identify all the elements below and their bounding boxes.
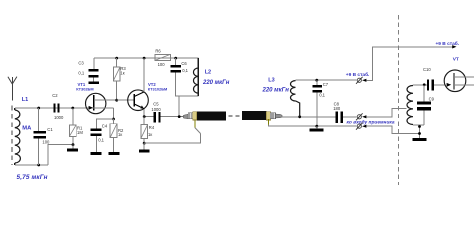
ground (R1) xyxy=(72,145,74,149)
node: emitter/R4/C5 xyxy=(143,115,146,118)
node: rail/VT2 collector xyxy=(143,57,146,60)
resistor R2 xyxy=(113,119,115,124)
wire: VT2 emitter row to C5 xyxy=(144,116,154,118)
svg-text:1М: 1М xyxy=(77,130,83,135)
wire: L1 bottom rail xyxy=(15,164,48,166)
transistor VT2 xyxy=(128,90,149,111)
svg-text:C5: C5 xyxy=(153,102,159,107)
connector pin: to receiver input xyxy=(357,115,361,119)
node: ground junction 2 xyxy=(418,132,421,135)
capacitor C6 xyxy=(175,58,177,65)
svg-text:КТ302БМ: КТ302БМ xyxy=(76,86,93,91)
wire: to VT2 base xyxy=(117,99,135,101)
ferrite core (dashed) of magnetic antenna xyxy=(11,106,13,165)
coax left connector xyxy=(181,116,184,118)
node: C2 / R1 / gate junction xyxy=(71,107,74,110)
node: ground junction 1 xyxy=(418,125,421,128)
wire: C4 branch xyxy=(97,119,114,129)
ground (R4) xyxy=(143,143,145,149)
capacitor C9 xyxy=(423,85,425,102)
transistor VT1 (JFET) xyxy=(86,93,106,113)
resistor R3 xyxy=(116,58,118,67)
capacitor C3 xyxy=(93,58,95,69)
wire: shield bus right xyxy=(268,125,356,127)
shield pigtail (left, olive) xyxy=(194,119,196,127)
svg-text:R4: R4 xyxy=(149,125,155,130)
svg-text:1к: 1к xyxy=(148,132,152,137)
inductor L2 xyxy=(194,58,199,96)
node: C1 bottom xyxy=(37,164,40,167)
capacitor C4 xyxy=(90,129,101,132)
coax cable body (left) xyxy=(197,111,226,120)
wire: L1 top to VT1 gate xyxy=(15,107,89,109)
VT1 channel bar xyxy=(93,95,95,111)
svg-text:C10: C10 xyxy=(423,67,431,72)
ground (C7/shield) xyxy=(316,126,318,128)
svg-text:220 мкГн: 220 мкГн xyxy=(202,80,230,86)
svg-text:C3: C3 xyxy=(78,60,84,65)
svg-text:C9: C9 xyxy=(429,96,435,101)
coax right connector xyxy=(266,112,270,120)
node: L4/C9/C10 xyxy=(423,83,426,86)
wire: right coax center to C8 xyxy=(282,116,335,118)
svg-text:1000: 1000 xyxy=(54,115,64,120)
resistor R6 xyxy=(155,54,170,60)
svg-text:L3: L3 xyxy=(268,77,274,83)
VT gate arrow xyxy=(447,83,452,87)
VT1 gate/source lead xyxy=(89,107,114,109)
ground (C4) xyxy=(91,152,102,155)
connector pin: shield xyxy=(357,124,361,128)
svg-text:R6: R6 xyxy=(155,48,161,53)
+9V rail (left section) xyxy=(94,57,198,59)
VT source lead xyxy=(454,84,474,86)
VT1 drain lead xyxy=(94,99,117,101)
node: rail/C7 xyxy=(315,79,318,82)
inductor L4 (receiver input coil) xyxy=(407,85,413,125)
svg-text:C2: C2 xyxy=(52,93,58,98)
svg-text:180: 180 xyxy=(333,106,341,111)
VT drain lead xyxy=(454,76,474,78)
wire: VT1 source drop xyxy=(113,108,115,119)
svg-text:0,1: 0,1 xyxy=(78,70,84,75)
node: coax center / L2 xyxy=(178,115,181,118)
resistor R4 xyxy=(143,117,145,125)
svg-text:C1: C1 xyxy=(47,127,53,132)
connector pin: +9V stab xyxy=(357,78,361,82)
capacitor C10 xyxy=(427,79,429,90)
node: shield bus / C7 ground xyxy=(315,125,318,128)
node: rail/R3 xyxy=(115,57,118,60)
coax cable break dashes xyxy=(229,115,242,117)
VT channel bar xyxy=(453,73,455,90)
VT2 collector xyxy=(134,92,144,97)
capacitor C1 xyxy=(38,108,40,131)
transistor VT (receiver, JFET) xyxy=(444,70,466,92)
wire: L4 top to C9/C10 node xyxy=(413,84,427,86)
wire: C6 bottom to L2 bottom / coax node xyxy=(176,72,199,96)
svg-text:220 мкГн: 220 мкГн xyxy=(262,87,290,93)
wire: bottom rail up to R1 ground node xyxy=(48,145,73,165)
svg-text:1к: 1к xyxy=(118,132,122,137)
VT1 gate arrow xyxy=(89,106,93,110)
ground (receiver) xyxy=(413,138,427,141)
svg-text:1к: 1к xyxy=(120,70,124,75)
svg-text:L1: L1 xyxy=(22,97,28,103)
svg-text:1000: 1000 xyxy=(151,107,161,112)
VT2 emitter with arrow xyxy=(134,104,144,109)
svg-text:C6: C6 xyxy=(181,61,187,66)
svg-text:ко входу приемника: ко входу приемника xyxy=(347,120,395,126)
resistor R1 xyxy=(72,108,74,125)
svg-text:5,75 мкГн: 5,75 мкГн xyxy=(17,174,48,181)
svg-text:КТ3102БМ: КТ3102БМ xyxy=(148,86,168,91)
svg-text:+9 В стаб.: +9 В стаб. xyxy=(436,40,460,47)
screen boundary (dashed) xyxy=(398,15,400,185)
node: L1/C1 top xyxy=(37,107,40,110)
capacitor C2 xyxy=(54,104,56,113)
svg-text:L2: L2 xyxy=(205,69,211,75)
svg-text:+9 В стаб.: +9 В стаб. xyxy=(346,71,370,78)
svg-text:C4: C4 xyxy=(102,124,108,129)
svg-text:100: 100 xyxy=(158,62,166,67)
wire: L4 bottom / C9 bottom xyxy=(413,124,424,126)
shield pigtail (right, olive) xyxy=(267,119,269,124)
svg-text:MA: MA xyxy=(22,125,32,131)
capacitor C7 xyxy=(316,80,318,85)
capacitor C8 xyxy=(336,112,338,123)
wire: shield bus left xyxy=(144,134,200,144)
node: VT1 drain / R3 / VT2 base xyxy=(115,99,118,102)
svg-text:0,1: 0,1 xyxy=(319,92,325,97)
VT2 base bar xyxy=(133,94,135,106)
node: source / R2 / C4 xyxy=(112,118,115,121)
inductor L3 xyxy=(291,80,300,117)
node: rail/C6 xyxy=(174,57,177,60)
node: R1 bottom / ground xyxy=(72,143,75,146)
antenna xyxy=(8,77,17,101)
node: R4 bottom / shield xyxy=(143,142,146,145)
+9V rail (right section) xyxy=(296,79,357,81)
ground (C3) xyxy=(89,81,100,84)
node: coax center / L3 xyxy=(298,115,301,118)
svg-text:VT: VT xyxy=(453,57,459,63)
svg-text:100: 100 xyxy=(42,139,50,144)
coax cable body (right) xyxy=(242,111,266,120)
svg-text:C7: C7 xyxy=(323,82,329,87)
svg-text:0,1: 0,1 xyxy=(98,138,104,143)
svg-text:0,1: 0,1 xyxy=(182,68,188,73)
inductor L1 (magnetic antenna MA) xyxy=(15,108,21,165)
ground (R2) xyxy=(108,152,119,155)
capacitor C5 xyxy=(154,112,156,122)
